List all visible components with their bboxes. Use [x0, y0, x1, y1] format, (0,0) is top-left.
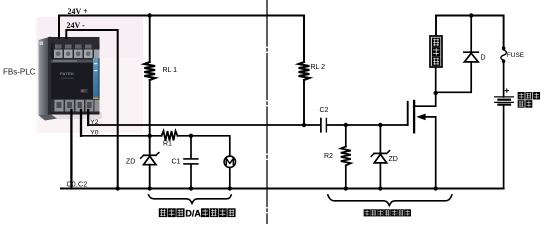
svg-text:Y2: Y2	[90, 119, 98, 126]
svg-text:FATEK: FATEK	[60, 71, 74, 76]
svg-text:D: D	[481, 55, 486, 62]
svg-text:24V +: 24V +	[68, 7, 89, 16]
svg-text:C2: C2	[320, 107, 329, 114]
svg-text:FBs-PLC: FBs-PLC	[3, 68, 36, 77]
svg-text:24V -: 24V -	[67, 21, 86, 30]
svg-text:R1: R1	[163, 141, 172, 148]
svg-text:Y0: Y0	[90, 130, 98, 137]
svg-text:D/A: D/A	[185, 208, 201, 218]
svg-text:RL 1: RL 1	[163, 67, 178, 74]
svg-text:C1: C1	[172, 159, 181, 166]
svg-text:C0,C2: C0,C2	[67, 182, 88, 189]
svg-text:R2: R2	[324, 153, 333, 160]
svg-text:RL 2: RL 2	[311, 64, 326, 71]
svg-text:FUSE: FUSE	[507, 52, 525, 59]
svg-text:ZD: ZD	[126, 159, 135, 166]
svg-text:ZD: ZD	[389, 156, 398, 163]
